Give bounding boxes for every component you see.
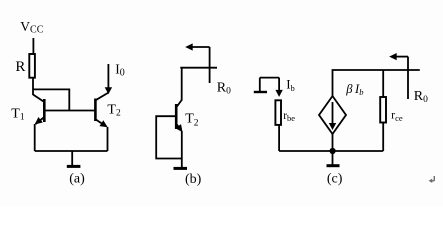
svg-text:T1: T1: [11, 107, 25, 123]
label R0 c: [414, 89, 428, 105]
label (c): [327, 172, 343, 187]
resistor rbe: [275, 100, 281, 125]
label T2 b: [185, 112, 199, 129]
label Ib: [286, 77, 295, 93]
svg-text:(c): (c): [327, 172, 343, 187]
wire T2 emitter down: [107, 127, 109, 151]
wire collector b: [181, 68, 183, 101]
junction dot: [330, 148, 336, 154]
label T2: [107, 102, 121, 118]
resistor rce: [380, 97, 386, 123]
base rail T1 T2: [44, 110, 95, 112]
svg-text:I0: I0: [115, 62, 125, 79]
R0 probe arrow c: [389, 53, 408, 99]
svg-text:R: R: [15, 59, 25, 75]
transistor T1: [33, 95, 44, 125]
wire diamond to dot: [332, 134, 334, 151]
label beta Ib: [345, 82, 363, 97]
ground c: [327, 151, 340, 166]
wire rail to diamond: [332, 70, 334, 96]
wire emitter to ground b: [181, 131, 183, 168]
resistor R: [29, 54, 35, 78]
current Ib arrow: [275, 78, 282, 97]
label (b): [185, 172, 202, 187]
wire collector to probe b: [180, 67, 217, 69]
svg-text:(b): (b): [185, 172, 202, 187]
svg-text:(a): (a): [69, 172, 85, 187]
label T1: [11, 107, 25, 123]
wire T1 emitter down: [34, 124, 36, 151]
label R: [15, 59, 25, 75]
svg-text:T2: T2: [107, 102, 121, 118]
wire rce bottom: [382, 123, 384, 152]
paragraph mark: [429, 176, 435, 183]
svg-text:β Ib: β Ib: [345, 82, 363, 97]
label rbe: [283, 110, 295, 123]
svg-text:rbe: rbe: [283, 110, 295, 123]
wire node to base tie: [33, 89, 69, 110]
svg-text:R0: R0: [217, 80, 231, 96]
ground a: [67, 151, 81, 166]
svg-text:R0: R0: [414, 89, 428, 105]
label rce: [391, 108, 403, 123]
current I0 arrow: [105, 64, 112, 94]
base loop b: [156, 116, 182, 158]
Vcc label: [20, 19, 43, 36]
svg-text:T2: T2: [185, 112, 199, 129]
svg-text:VCC: VCC: [20, 19, 43, 36]
dependent source beta Ib: [319, 96, 346, 134]
svg-text:Ib: Ib: [286, 77, 295, 93]
svg-text:rce: rce: [391, 108, 403, 123]
label R0 b: [217, 80, 231, 96]
label I0: [115, 62, 125, 79]
wire Vcc to R: [32, 38, 34, 55]
label (a): [69, 172, 85, 187]
bottom rail c: [279, 150, 383, 152]
top rail c: [332, 69, 420, 71]
transistor T2: [95, 93, 108, 128]
wire R to node: [32, 78, 34, 96]
wire rbe to rail: [278, 125, 280, 151]
wire rce top: [382, 70, 384, 97]
ground b: [174, 167, 188, 170]
step source symbol: [254, 78, 279, 92]
bottom rail a: [35, 150, 108, 152]
R0 probe arrow b: [185, 43, 209, 83]
transistor T2 b: [175, 100, 182, 132]
